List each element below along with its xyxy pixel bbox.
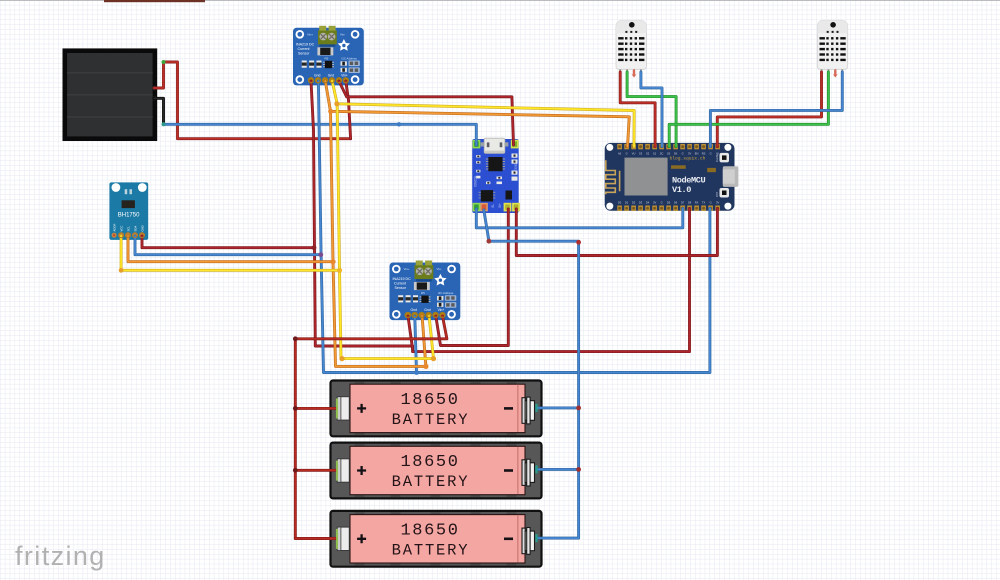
svg-text:fritzing: fritzing bbox=[15, 541, 106, 571]
svg-text:D3: D3 bbox=[639, 201, 643, 205]
svg-text:G: G bbox=[710, 201, 712, 205]
svg-text:RS: RS bbox=[702, 152, 706, 156]
svg-text:C3962: C3962 bbox=[514, 162, 518, 172]
wire TP4056 B+ blue to battery minus chain bbox=[484, 210, 579, 538]
wire stub battery1 plus bbox=[295, 407, 336, 410]
wire DHT1 green bbox=[627, 72, 676, 147]
wire DHT2 blue bbox=[710, 72, 842, 147]
svg-text:G: G bbox=[626, 152, 628, 156]
wire solar blue to TP4056 IN- bbox=[164, 124, 477, 145]
svg-text:S2: S2 bbox=[646, 152, 650, 156]
wire BH1750 GND red bbox=[142, 236, 314, 248]
svg-text:D4: D4 bbox=[646, 201, 650, 205]
svg-text:FLASH: FLASH bbox=[715, 154, 719, 162]
pin rings INA219 U1 bbox=[309, 78, 349, 83]
wire solar minus lead (black) bbox=[154, 98, 164, 124]
svg-text:D0: D0 bbox=[618, 201, 622, 205]
wire BH1750 orange bbox=[128, 236, 333, 262]
battery BT3 18650 bbox=[331, 511, 542, 567]
svg-text:03962A: 03962A bbox=[474, 175, 478, 187]
svg-text:G: G bbox=[682, 152, 684, 156]
svg-text:S3: S3 bbox=[639, 152, 643, 156]
wire orange branch B down to INA219#2 pin3 bbox=[331, 111, 426, 366]
wire TP4056 B- blue to NodeMCU GND bbox=[476, 209, 683, 228]
wire INA219#1 pin3 orange branch A to NodeMCU bbox=[325, 81, 629, 147]
wire TP4056 OUT+ to NodeMCU Vin bbox=[516, 209, 717, 256]
wire INA219#2 pin5 to TP4056 OUT- bbox=[436, 209, 509, 346]
battery contact markers bbox=[336, 403, 338, 545]
svg-text:3V: 3V bbox=[688, 152, 691, 156]
wire DHT1 blue bbox=[641, 72, 662, 147]
wire stub battery3 plus bbox=[295, 537, 336, 540]
wire DHT2 green bbox=[669, 72, 828, 147]
wire INA219#1 pin6 down to solar red bbox=[346, 81, 351, 139]
svg-text:SDA: SDA bbox=[133, 226, 137, 232]
svg-text:SCL: SCL bbox=[126, 226, 130, 232]
charger TP4056 bbox=[472, 138, 519, 213]
svg-text:3V: 3V bbox=[716, 201, 719, 205]
wire solar plus (bright red) to INA219#1 Vin- net bbox=[154, 62, 351, 139]
svg-text:V1.0: V1.0 bbox=[672, 185, 691, 195]
solar panel bbox=[65, 51, 156, 139]
current sensor U2 INA219 bbox=[390, 261, 461, 321]
light sensor BH1750 bbox=[109, 182, 148, 240]
svg-text:B+: B+ bbox=[498, 203, 502, 208]
wire DHT1 red bbox=[620, 72, 655, 147]
svg-text:D8: D8 bbox=[688, 201, 692, 205]
wire INA219#2 pin2 blue down bbox=[415, 316, 417, 373]
top edge line bbox=[0, 0, 1000, 1]
pin rings BH1750 bbox=[119, 233, 145, 238]
svg-text:EN: EN bbox=[695, 152, 699, 156]
svg-text:ADDR: ADDR bbox=[113, 224, 117, 232]
battery BT2 18650 bbox=[331, 443, 542, 499]
battery BT1 18650 bbox=[331, 381, 542, 437]
svg-text:RST: RST bbox=[715, 191, 719, 197]
svg-text:S1: S1 bbox=[653, 152, 657, 156]
wire DHT2 red bbox=[717, 72, 821, 147]
sensor DHT22 #1 bbox=[616, 20, 646, 74]
svg-text:GND: GND bbox=[140, 225, 144, 231]
svg-text:SK: SK bbox=[674, 152, 678, 156]
svg-text:D5: D5 bbox=[667, 201, 671, 205]
wire INA219#1 pin1 ground-run to NodeMCU D-pin bbox=[311, 81, 690, 352]
svg-text:D6: D6 bbox=[674, 201, 678, 205]
sensor DHT22 #2 bbox=[817, 20, 847, 74]
wire yellow branch B down bbox=[337, 104, 433, 359]
svg-text:blog.squix.ch: blog.squix.ch bbox=[670, 155, 706, 161]
svg-text:VU: VU bbox=[632, 152, 636, 156]
wire stub battery2 minus bbox=[537, 468, 579, 471]
svg-text:A0: A0 bbox=[618, 152, 622, 156]
pin rings INA219 U2 bbox=[406, 313, 446, 318]
wire INA219#1 pin4 yellow branch A to NodeMCU bbox=[332, 81, 634, 147]
wire INA219#1 pin2 blue long ground bbox=[318, 81, 710, 373]
wire INA219#2 pin1 diagonal bbox=[408, 316, 413, 349]
svg-text:RX: RX bbox=[695, 201, 699, 205]
unused pin stub DHT1 bbox=[633, 71, 635, 76]
svg-text:SC: SC bbox=[660, 152, 664, 156]
current sensor U1 INA219 bbox=[293, 26, 364, 86]
svg-text:D7: D7 bbox=[681, 201, 685, 205]
svg-text:TX: TX bbox=[702, 201, 706, 205]
svg-text:G: G bbox=[710, 152, 712, 156]
unused pin stub DHT2 bbox=[834, 71, 836, 76]
wire BH1750 yellow bbox=[121, 236, 339, 270]
svg-text:S0: S0 bbox=[667, 152, 671, 156]
wire battery plus net dark red bbox=[295, 316, 447, 539]
wire BH1750 blue bbox=[135, 236, 321, 255]
svg-text:VCC: VCC bbox=[120, 226, 124, 232]
svg-text:D2: D2 bbox=[632, 201, 636, 205]
svg-text:D1: D1 bbox=[625, 201, 629, 205]
microcontroller NodeMCU V1.0 bbox=[605, 143, 739, 211]
wire stub battery1 minus bbox=[537, 406, 579, 409]
svg-text:G: G bbox=[661, 201, 663, 205]
top clipped wire bbox=[104, 0, 205, 2]
wire INA219#1 pin5 to TP4056 IN+ bbox=[339, 81, 514, 145]
svg-text:BH1750: BH1750 bbox=[118, 213, 140, 219]
svg-text:3V: 3V bbox=[653, 201, 656, 205]
wire stub battery2 plus bbox=[295, 469, 336, 472]
